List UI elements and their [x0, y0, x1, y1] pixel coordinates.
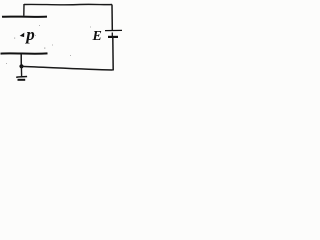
svg-text:p: p [24, 25, 35, 44]
wire: top horizontal [24, 3, 112, 5]
wire: right vertical upper (top wire to battery) [111, 5, 113, 31]
capacitor plate (bottom) [1, 52, 48, 54]
wire: left vertical lead to top plate [23, 4, 25, 16]
ground: lower bar [18, 79, 26, 81]
wire: bottom horizontal [22, 66, 113, 70]
battery E: long positive plate [105, 29, 122, 31]
battery E: short negative plate [108, 36, 118, 38]
wire: lead from bottom plate down to node [20, 54, 22, 67]
arrow marker before label p [20, 33, 25, 38]
speckle noise (scan artifacts) [6, 25, 91, 64]
wire: right vertical lower (battery to bottom wire) [112, 37, 114, 71]
svg-text:E: E [92, 29, 102, 44]
node: junction dot [19, 64, 23, 68]
ground: upper bar [16, 76, 27, 79]
capacitor plate (top) [2, 16, 47, 18]
ground: stem [20, 67, 22, 77]
battery E: center tick [111, 33, 113, 37]
